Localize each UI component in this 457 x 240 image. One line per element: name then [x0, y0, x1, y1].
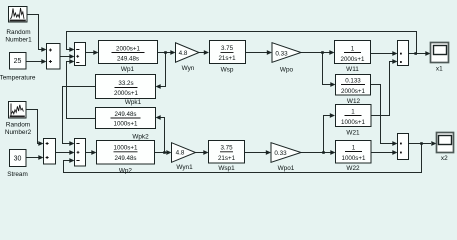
arrowhead into W11	[329, 50, 334, 55]
scope Scope x1	[431, 43, 449, 63]
wire Wpo1 to W22	[301, 152, 331, 154]
block constant 25 Temperature	[10, 53, 27, 70]
svg-text:W12: W12	[347, 98, 361, 105]
arrowhead into Wyn1	[166, 150, 171, 155]
block W21 transfer function 1/1000s+1	[336, 105, 372, 127]
svg-text:x1: x1	[436, 65, 443, 72]
svg-text:0.33: 0.33	[275, 51, 288, 58]
wire branch Wp2 output to Wpk2 input	[161, 118, 165, 153]
block W12 transfer function 0.133/2000s+1	[336, 75, 371, 96]
wire bottom feedback y2	[64, 144, 422, 173]
wire bottom Sum2 to Wp2	[86, 152, 92, 154]
wire Sum x1 to Scope x1	[409, 53, 426, 55]
wire W22 to Sum x2	[371, 152, 393, 154]
wire Wpk2 output to Sum2	[67, 62, 96, 119]
wire Sum1 to Sum2	[60, 56, 70, 58]
wire Wsp to Wpo	[246, 52, 268, 54]
arrowhead into Wsp	[204, 50, 209, 55]
svg-text:Wpk2: Wpk2	[132, 133, 149, 140]
svg-text:Wsp1: Wsp1	[218, 165, 235, 172]
svg-text:33.2s: 33.2s	[118, 80, 133, 87]
svg-text:25: 25	[14, 58, 22, 65]
wire branch Wp1 output to Wpk1 input	[161, 53, 166, 87]
arrowhead into Sum1 input 1	[41, 47, 46, 52]
wire bottom Sum1 to bottom Sum2	[56, 152, 70, 154]
gain Wpo 0.33	[272, 43, 301, 63]
svg-text:2000s+1: 2000s+1	[114, 90, 138, 97]
arrowhead into bottom Sum2 input 1	[69, 141, 74, 146]
svg-text:x2: x2	[441, 155, 448, 162]
arrowhead into W22	[330, 150, 335, 155]
svg-text:Wsp: Wsp	[221, 66, 234, 73]
svg-text:2000s+1: 2000s+1	[341, 88, 365, 95]
svg-text:21s+1: 21s+1	[218, 155, 236, 162]
svg-text:Wyn1: Wyn1	[176, 164, 193, 171]
block Wp1 transfer function 2000s+1/249.48s	[99, 41, 158, 64]
svg-text:Wyn: Wyn	[182, 65, 195, 72]
svg-text:1: 1	[352, 144, 356, 151]
svg-text:1000s+1: 1000s+1	[114, 120, 138, 127]
arrowhead into Wpo1	[266, 150, 271, 155]
block W22 transfer function 1/1000s+1	[336, 141, 372, 164]
arrowhead into bottom Sum2 input 3	[69, 158, 74, 163]
wire W21 output up to Sum x1	[371, 62, 393, 116]
svg-text:Wp1: Wp1	[121, 66, 135, 73]
arrowhead into Sum x1 input 2	[392, 59, 397, 64]
arrowhead into W21	[330, 113, 335, 118]
sum block Sum2 (top)	[75, 43, 86, 66]
svg-text:0.133: 0.133	[345, 77, 361, 84]
arrowhead into Sum2 input 2	[69, 54, 74, 59]
svg-text:3.75: 3.75	[221, 45, 234, 52]
arrowhead into Scope x2	[431, 141, 436, 146]
sum block Sum1 (top)	[47, 44, 61, 70]
junction dot y2 tap	[420, 142, 423, 145]
wire Random Number2 to bottom Sum1	[26, 110, 39, 144]
wire W11 to Sum x1	[371, 53, 394, 55]
wire Wp1 to Wyn	[158, 52, 171, 54]
arrowhead into bottom Sum2 input 2	[69, 150, 74, 155]
block Wsp1 transfer function 3.75/21s+1	[209, 141, 245, 164]
gain Wyn1 4.8	[172, 143, 196, 163]
svg-text:Number2: Number2	[5, 129, 32, 136]
arrowhead into Sum2 input 1	[69, 47, 74, 52]
block Wpk1 transfer function 33.2s/2000s+1 (mirrored)	[96, 75, 156, 99]
arrowhead into Sum1 input 2	[41, 59, 46, 64]
wire Wyn1 to Wsp1	[196, 152, 204, 154]
wire Wsp1 to Wpo1	[245, 152, 267, 154]
gain Wpo1 0.33	[271, 143, 301, 163]
svg-text:249.48s: 249.48s	[114, 155, 136, 162]
junction dot Wp2 output	[163, 151, 166, 154]
wire Random Number1 to Sum1	[27, 15, 42, 50]
block constant 30 Stream	[10, 150, 27, 167]
wire Wpk1 output to bottom Sum2	[63, 87, 96, 144]
svg-text:Stream: Stream	[7, 171, 28, 178]
wire top feedback y1	[67, 32, 417, 54]
svg-text:4.8: 4.8	[179, 50, 188, 57]
wire Sum x2 to Scope x2	[409, 143, 432, 145]
sum block Sum x2	[398, 134, 409, 160]
arrowhead into bottom Sum1 input 1	[38, 141, 43, 146]
arrowhead into Wp1	[93, 50, 98, 55]
arrowhead into Wp2	[91, 150, 96, 155]
svg-text:1000s+1: 1000s+1	[114, 145, 138, 152]
svg-text:Wp2: Wp2	[119, 168, 133, 175]
wire W12 output down to Sum x2	[371, 85, 394, 144]
svg-text:2000s+1: 2000s+1	[116, 45, 140, 52]
svg-text:Wpk1: Wpk1	[125, 99, 142, 106]
svg-text:Number1: Number1	[5, 36, 32, 43]
svg-text:1: 1	[351, 45, 355, 52]
svg-text:W21: W21	[346, 130, 360, 137]
svg-text:Random: Random	[6, 122, 30, 129]
wire Sum2 to Wp1	[86, 52, 94, 54]
junction dot Wp1 output	[164, 51, 167, 54]
wire Wpo to W11	[301, 52, 330, 54]
arrowhead into Wsp1	[203, 150, 208, 155]
svg-text:2000s+1: 2000s+1	[341, 56, 365, 63]
svg-text:Random: Random	[6, 29, 30, 36]
gain Wyn 4.8	[176, 43, 200, 62]
scope Scope x2	[437, 133, 454, 153]
wire branch Wpo output to W12 input	[323, 53, 331, 85]
svg-text:21s+1: 21s+1	[218, 55, 236, 62]
wire Stream constant to bottom Sum1	[26, 157, 39, 159]
junction dot Wpo1 output	[322, 151, 325, 154]
svg-text:W22: W22	[346, 165, 360, 172]
svg-text:0.33: 0.33	[274, 150, 287, 157]
block Random Number2	[9, 102, 27, 119]
arrowhead into Sum x2 input 2	[392, 150, 397, 155]
junction dot y1 tap	[414, 52, 417, 55]
wire branch Wpo1 output to W21 input	[324, 116, 331, 153]
block Wpk2 transfer function 249.48s/1000s+1 (mirrored)	[96, 108, 156, 129]
svg-text:W11: W11	[346, 66, 359, 73]
arrowhead into Sum x1 input 1	[392, 51, 397, 56]
svg-text:Wpo1: Wpo1	[278, 165, 295, 172]
wire Temperature constant to Sum1	[26, 61, 42, 63]
svg-text:30: 30	[14, 156, 22, 163]
arrowhead into Scope x1	[425, 51, 430, 56]
block Wsp transfer function 3.75/21s+1	[210, 41, 246, 64]
arrowhead into Wpk1 (points left)	[156, 84, 161, 89]
wire Wyn to Wsp	[199, 52, 204, 54]
block Random Number1	[9, 7, 28, 23]
svg-text:1: 1	[351, 108, 355, 115]
sum block Sum x1	[398, 41, 409, 66]
junction dot Wpo output	[321, 51, 324, 54]
svg-text:249.48s: 249.48s	[114, 111, 136, 118]
wire Wp2 to Wyn1	[155, 152, 167, 154]
svg-text:3.75: 3.75	[220, 145, 233, 152]
sum block Sum2 (bottom)	[75, 139, 86, 167]
block Wp2 transfer function 1000s+1/249.48s	[97, 141, 155, 165]
arrowhead into Wpk2 (points left)	[156, 115, 161, 120]
sum block Sum1 (bottom)	[44, 139, 56, 165]
svg-text:1000s+1: 1000s+1	[341, 119, 365, 126]
arrowhead into bottom Sum1 input 2	[38, 155, 43, 160]
arrowhead into W12	[330, 82, 335, 87]
arrowhead into Sum x2 input 1	[392, 141, 397, 146]
arrowhead into Wyn	[170, 50, 175, 55]
svg-text:1000s+1: 1000s+1	[342, 155, 366, 162]
block W11 transfer function 1/2000s+1	[335, 41, 371, 64]
svg-text:Wpo: Wpo	[280, 67, 294, 74]
arrowhead into Sum2 input 3	[69, 59, 74, 64]
svg-text:4.8: 4.8	[176, 150, 185, 157]
svg-text:Temperature: Temperature	[0, 74, 36, 81]
svg-text:249.48s: 249.48s	[117, 56, 139, 63]
arrowhead into Wpo	[267, 50, 272, 55]
